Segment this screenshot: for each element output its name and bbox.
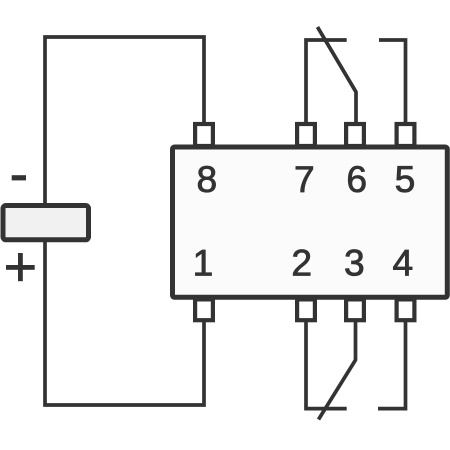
pin 7 lead box (top): [297, 124, 315, 146]
pin 1 lead box (bottom): [195, 299, 213, 320]
pin 2 lead box (bottom): [297, 299, 315, 320]
pin 6 lead box (top): [346, 124, 364, 146]
battery B1 (DC source box): [3, 206, 89, 240]
svg-text:2: 2: [291, 242, 312, 284]
wire battery positive to pin 1: [45, 242, 204, 405]
svg-text:1: 1: [193, 242, 214, 284]
svg-text:5: 5: [395, 158, 416, 200]
switch blade from pin 6 (top common, shown open crossing bar): [318, 27, 357, 124]
battery positive terminal label +: [6, 253, 35, 281]
svg-text:4: 4: [392, 242, 413, 284]
wire battery negative to pin 8: [45, 37, 204, 203]
svg-text:8: 8: [197, 158, 218, 200]
wire pin 4 to fixed contact bar (bottom NO): [378, 321, 406, 409]
pin 8 lead box (top): [195, 124, 213, 146]
wire pin 5 to fixed contact bar (top NO): [379, 40, 406, 124]
pin 5 lead box (top): [397, 124, 415, 146]
pin 3 lead box (bottom): [346, 299, 364, 320]
wire pin 7 to fixed contact bar (top NC): [306, 40, 347, 124]
svg-text:7: 7: [294, 158, 315, 200]
wire pin 2 to fixed contact bar (bottom NC): [306, 321, 347, 409]
svg-text:6: 6: [346, 158, 367, 200]
svg-text:3: 3: [344, 242, 365, 284]
pin 4 lead box (bottom): [397, 299, 415, 320]
battery negative terminal label -: [12, 175, 26, 180]
relay body K1: [173, 147, 448, 297]
switch blade from pin 3 (bottom common, shown open crossing bar): [319, 321, 356, 420]
